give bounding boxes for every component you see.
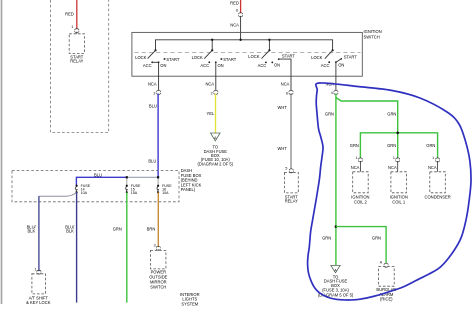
svg-text:15A: 15A xyxy=(131,191,138,195)
switch wafer 4 (LOCK/ACC/ON/START) xyxy=(311,49,357,68)
wire BLU xyxy=(148,94,158,178)
svg-text:ACC: ACC xyxy=(321,63,330,68)
highlight: hand-drawn blue loop xyxy=(308,83,471,300)
svg-text:1: 1 xyxy=(393,156,395,160)
svg-text:SWITCH: SWITCH xyxy=(364,34,380,39)
svg-text:ON: ON xyxy=(338,62,344,67)
wire YEL xyxy=(207,94,216,133)
node burglar branch junction xyxy=(335,225,338,228)
wire BRN to mirror switch xyxy=(147,192,159,247)
svg-text:1: 1 xyxy=(35,268,37,272)
svg-text:NCA: NCA xyxy=(428,165,437,170)
pin 3 connector xyxy=(153,90,160,95)
interior lights system label xyxy=(180,292,200,307)
svg-text:START: START xyxy=(223,57,237,62)
svg-text:GRN: GRN xyxy=(426,143,435,148)
wire BLU/BLK down xyxy=(65,192,76,302)
svg-text:GRN: GRN xyxy=(325,111,334,116)
svg-text:ACC: ACC xyxy=(258,63,267,68)
svg-text:YEL: YEL xyxy=(207,111,215,116)
wire GRN to interior lights xyxy=(113,192,127,302)
wire wafer1 ON output xyxy=(148,62,159,90)
svg-text:5: 5 xyxy=(285,166,287,170)
wire wafer3 START output xyxy=(281,81,290,86)
module boundary (dashed, left) xyxy=(51,0,109,133)
svg-text:1: 1 xyxy=(356,156,358,160)
svg-text:START: START xyxy=(282,54,296,59)
svg-text:BLU: BLU xyxy=(148,158,156,163)
pin 6 connector (start signal) xyxy=(286,90,293,95)
offpage connector A (to dash fuse box, fuse 10) xyxy=(198,133,234,167)
wire BLU bus inside fuse box xyxy=(76,172,126,185)
svg-text:NCA: NCA xyxy=(388,165,397,170)
svg-text:WHT: WHT xyxy=(277,146,287,151)
node coil bus junction xyxy=(396,132,399,135)
svg-text:10A: 10A xyxy=(81,191,88,195)
svg-text:SWITCH: SWITCH xyxy=(150,285,166,290)
node fuse bus junctions xyxy=(126,176,160,178)
switch wafer 3 (LOCK/ACC/ON/START) xyxy=(248,49,295,90)
svg-text:SYSTEM: SYSTEM xyxy=(181,302,198,307)
wire RED to start relay xyxy=(65,0,77,29)
svg-text:RELAY: RELAY xyxy=(285,199,298,204)
wire bus segment (fuse 15 to 16) xyxy=(127,177,158,185)
svg-text:ON: ON xyxy=(160,63,166,68)
svg-text:NCA: NCA xyxy=(351,165,360,170)
pin 1 connector of start relay xyxy=(71,25,79,34)
offpage connector A (to dash fuse box, fuse 3) xyxy=(318,265,354,297)
svg-text:6: 6 xyxy=(236,9,238,13)
pin 5 connector of start relay (right) xyxy=(285,166,293,173)
svg-text:ACC: ACC xyxy=(143,63,152,68)
svg-text:6: 6 xyxy=(286,91,288,95)
svg-text:ON: ON xyxy=(274,62,280,67)
svg-text:LOCK: LOCK xyxy=(192,55,203,60)
svg-text:NCA: NCA xyxy=(205,81,214,86)
svg-text:1: 1 xyxy=(432,156,434,160)
wire GRN branch to coils xyxy=(336,98,398,133)
switch wafer 2 (LOCK/ACC/ON/START) xyxy=(192,49,237,68)
svg-text:GRN: GRN xyxy=(387,143,396,148)
ignition coil 1 xyxy=(390,172,408,205)
svg-text:BLK: BLK xyxy=(28,229,36,234)
pin 2 connector xyxy=(211,90,218,95)
svg-text:START: START xyxy=(166,57,180,62)
svg-text:BLK: BLK xyxy=(66,229,74,234)
svg-text:GRN: GRN xyxy=(372,236,381,241)
start relay (right) xyxy=(284,173,298,204)
burglar alarm xyxy=(376,267,396,302)
mechanical linkage (dashed) xyxy=(135,52,361,54)
svg-text:1: 1 xyxy=(71,25,73,29)
svg-text:GRN: GRN xyxy=(113,227,122,232)
fuse 14 10A xyxy=(75,184,90,195)
svg-text:RED: RED xyxy=(65,12,74,17)
ignition coil 2 xyxy=(351,172,369,205)
svg-text:COIL 1: COIL 1 xyxy=(392,199,406,204)
svg-text:10A: 10A xyxy=(162,191,169,195)
svg-text:RELAY: RELAY xyxy=(70,59,83,64)
pin 1 connector of A/T shift lock xyxy=(35,268,42,275)
dash fuse box (dashed) xyxy=(12,168,202,202)
svg-text:LOCK: LOCK xyxy=(135,55,146,60)
svg-text:LOCK: LOCK xyxy=(248,54,259,59)
svg-text:CONDENSER: CONDENSER xyxy=(425,194,451,199)
wire feed into switch xyxy=(240,16,242,40)
svg-text:START: START xyxy=(344,55,358,60)
svg-text:NCA: NCA xyxy=(281,81,290,86)
svg-text:BLU: BLU xyxy=(149,104,157,109)
ignition switch box U1 xyxy=(132,29,382,76)
node bus junctions xyxy=(211,39,271,41)
svg-text:RED: RED xyxy=(230,0,239,5)
svg-text:4: 4 xyxy=(331,91,333,95)
wire GRN coil bus xyxy=(360,133,437,158)
svg-text:& KEY LOCK: & KEY LOCK xyxy=(26,300,51,305)
pin 1 connector of ignition coil 1 xyxy=(387,143,400,172)
svg-text:LOCK: LOCK xyxy=(311,55,322,60)
svg-text:PANEL): PANEL) xyxy=(181,187,196,192)
svg-text:GRN: GRN xyxy=(387,111,396,116)
svg-text:BRN: BRN xyxy=(147,227,156,232)
switch wafer 1 (LOCK/ACC/ON/START) xyxy=(135,49,180,68)
svg-text:2: 2 xyxy=(211,91,213,95)
start relay (left) xyxy=(69,34,84,64)
svg-text:3: 3 xyxy=(153,91,155,95)
wire WHT xyxy=(277,94,291,169)
condenser xyxy=(425,172,451,200)
fuse 16 10A xyxy=(157,184,172,195)
wire GRN branch to burglar alarm xyxy=(336,227,386,264)
svg-text:ON: ON xyxy=(218,63,224,68)
svg-text:(RICE): (RICE) xyxy=(380,296,393,301)
svg-text:(DIAGRAM 2 OF 5): (DIAGRAM 2 OF 5) xyxy=(198,162,234,167)
svg-text:GRN: GRN xyxy=(350,143,359,148)
svg-text:BLU: BLU xyxy=(94,172,102,177)
svg-text:NCA: NCA xyxy=(148,81,157,86)
A/T shift and key lock xyxy=(26,274,51,305)
fuse 15 15A xyxy=(126,184,141,195)
pin 1 connector of ignition coil 2 xyxy=(350,143,363,172)
svg-text:GRN: GRN xyxy=(322,236,331,241)
pin 6 connector of ignition switch feed xyxy=(230,9,242,28)
wire wafer4 ON output xyxy=(326,62,336,90)
pin 3 connector of mirror switch xyxy=(154,243,161,250)
pin A connector of burglar alarm xyxy=(380,260,388,267)
svg-text:NCA: NCA xyxy=(230,23,239,28)
power outside mirror switch xyxy=(149,250,167,289)
wire supply bus inside switch xyxy=(156,40,333,51)
pin 1 connector of condenser xyxy=(426,143,439,172)
svg-text:ACC: ACC xyxy=(200,63,209,68)
wire GRN main vertical xyxy=(322,94,336,266)
wire wafer2 ON output xyxy=(205,62,215,90)
wire BLU/BLK to A/T shift lock xyxy=(27,192,77,271)
svg-text:3: 3 xyxy=(154,243,156,247)
pin 4 connector xyxy=(331,90,338,95)
svg-text:WHT: WHT xyxy=(277,105,287,110)
svg-text:COIL 2: COIL 2 xyxy=(354,199,368,204)
wire RED battery feed to ignition switch xyxy=(230,0,240,13)
